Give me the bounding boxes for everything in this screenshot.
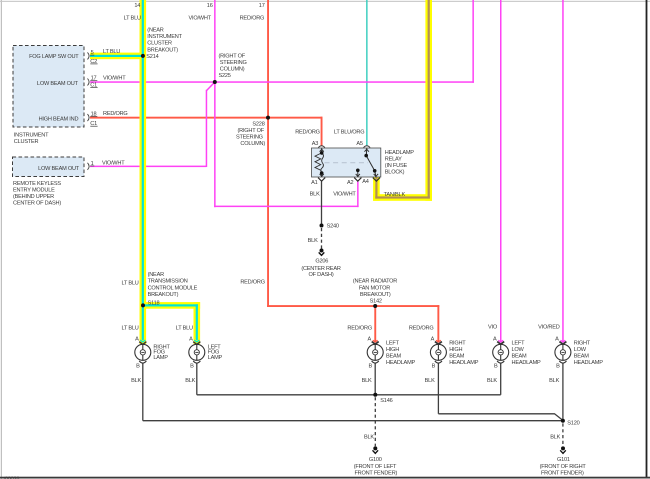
wire BLK right high beam B down [437,363,439,413]
svg-text:BREAKOUT): BREAKOUT) [147,47,178,53]
connector chevron below relay pin A2 [354,178,361,182]
svg-text:LT BLU: LT BLU [121,281,138,287]
splice S214 [141,54,145,58]
wire LT BLU/ORG teal vertical to relay pin A5 [366,0,368,145]
svg-text:S228: S228 [252,122,264,128]
svg-text:INSTRUMENT: INSTRUMENT [14,133,49,139]
wire BLK left low beam B down [500,363,502,394]
wire VIO/WHT right riser to top of page [472,0,474,83]
splice S225 [213,80,217,84]
svg-text:B: B [368,364,372,370]
svg-text:B: B [190,364,194,370]
wire RED/ORG vertical S142 to left high beam headlamp [374,305,376,342]
svg-text:BLK: BLK [549,378,559,384]
svg-text:A: A [189,336,193,342]
wire RED/ORG horizontal to S142 and right high beam drop [267,305,439,307]
wire BLK right high beam ground run [438,414,563,421]
svg-text:HIGH: HIGH [386,347,399,353]
wire BLK ground run left fog lamp to S146 to left low beam [197,394,501,396]
svg-text:S214: S214 [146,54,158,60]
wire BLK dashed S240 to ground G206 [321,228,323,249]
wire BLK relay A1 down to S240 [321,182,323,226]
svg-text:S240: S240 [327,224,339,230]
svg-text:LEFT: LEFT [512,341,526,347]
wire VIO/WHT horizontal S225 to right riser [214,81,474,83]
connector arc pin 17 C1 instrument cluster [88,79,90,86]
svg-text:RED/ORG: RED/ORG [347,325,372,331]
svg-text:BLK: BLK [364,435,374,441]
svg-text:LAMP: LAMP [153,355,168,361]
wire LT BLU horizontal from instrument cluster FOG LAMP SW OUT (yellow band) [90,53,146,60]
svg-text:VIO/WHT: VIO/WHT [103,75,126,81]
svg-text:BLK: BLK [131,378,141,384]
svg-text:RIGHT: RIGHT [449,341,466,347]
wire VIO/WHT vertical circuit 16 down to S225 and on to relay A2 elbow [214,0,216,207]
svg-text:S225: S225 [219,73,231,79]
page border left [1,0,2,479]
svg-text:STEERING: STEERING [220,60,247,66]
wire BLK left high beam B down to S146 [374,363,376,394]
svg-text:(IN FUSE: (IN FUSE [385,163,408,169]
svg-text:BLOCK): BLOCK) [385,169,405,175]
svg-text:A2: A2 [347,180,354,186]
svg-text:RED/ORG: RED/ORG [295,130,320,136]
svg-text:TAN/BLK: TAN/BLK [384,192,406,198]
svg-text:BEAM: BEAM [449,354,465,360]
svg-text:REMOTE KEYLESS: REMOTE KEYLESS [13,181,61,187]
wire BLK dashed S120 to ground G101 [562,423,564,446]
wire LT BLU cyan core vertical circuit 14 [142,0,144,343]
svg-text:HIGH BEAM IND: HIGH BEAM IND [39,117,79,123]
svg-text:(NEAR RADIATOR: (NEAR RADIATOR [353,279,397,285]
svg-text:ENTRY MODULE: ENTRY MODULE [13,188,55,194]
wire VIO/WHT diagonal from keyless riser to S225 [207,82,215,91]
relay coil between A3 and A1 [315,148,324,177]
page border top [0,1,650,2]
svg-text:B: B [494,364,498,370]
svg-text:HEADLAMP: HEADLAMP [385,150,415,156]
svg-text:COLUMN): COLUMN) [220,66,245,72]
svg-text:COLUMN): COLUMN) [240,141,265,147]
svg-text:VIO/WHT: VIO/WHT [102,160,125,166]
right fog lamp [135,342,151,364]
svg-text:STEERING: STEERING [236,135,263,141]
svg-text:S146: S146 [380,398,392,404]
svg-text:A1: A1 [311,180,318,186]
svg-text:(NEAR: (NEAR [147,27,163,33]
svg-text:A4: A4 [362,179,369,185]
svg-text:LT BLU: LT BLU [124,15,141,21]
svg-text:A: A [431,336,435,342]
svg-text:VIO/WHT: VIO/WHT [189,15,212,21]
svg-text:(FRONT OF RIGHT: (FRONT OF RIGHT [540,464,587,470]
relay switch A4 stub with down arrow [375,171,376,177]
svg-text:(CENTER REAR: (CENTER REAR [301,266,340,272]
svg-text:VIO/WHT: VIO/WHT [333,191,356,197]
relay switch blade A5 to A4 [366,156,375,171]
wire RED/ORG vertical drop to relay pin A3 [321,117,323,146]
svg-text:LEFT: LEFT [386,341,400,347]
svg-text:HEADLAMP: HEADLAMP [449,360,479,366]
svg-text:HIGH: HIGH [449,347,462,353]
left high beam headlamp [367,342,383,364]
connector chevron below relay pin A1 [318,178,325,182]
svg-text:FOG LAMP SW OUT: FOG LAMP SW OUT [29,54,79,60]
svg-text:LAMP: LAMP [208,355,223,361]
svg-text:TRANSMISSION: TRANSMISSION [148,279,188,285]
right low beam headlamp [555,342,571,364]
wire TAN/BLK tan core vertical to top [428,0,430,199]
ground symbol G206 [319,249,325,256]
svg-text:BEAM: BEAM [512,354,528,360]
svg-text:LOW BEAM OUT: LOW BEAM OUT [38,166,80,172]
svg-text:16: 16 [207,3,213,9]
svg-text:BLK: BLK [308,238,318,244]
relay switch dot at A2 contact [356,169,360,173]
splice S142 [373,304,377,308]
svg-text:B: B [136,364,140,370]
connector arc relay pin A5 [364,146,371,148]
wire RED/ORG vertical to right high beam headlamp [437,305,439,342]
wire VIO/WHT horizontal elbow to relay A2 [214,206,359,208]
svg-text:HEADLAMP: HEADLAMP [574,360,604,366]
relay switch pin A5 stub with up arrow [356,148,378,177]
wire LT BLU vertical circuit 14 (yellow band) [140,0,147,344]
wire TAN/BLK horizontal elbow (yellow band) [373,194,432,201]
wire TAN/BLK vertical to top of page (yellow band) [425,0,432,201]
relay box headlamp relay [312,148,381,177]
connector arc pin 5 C2 instrument cluster [88,52,90,59]
splice S118 [141,303,145,307]
svg-text:VIO: VIO [488,324,498,330]
wire LT BLU vertical to left fog lamp (yellow band) [194,302,201,344]
svg-text:LT BLU: LT BLU [103,49,120,55]
wire TAN/BLK tan core horizontal elbow [375,196,430,198]
relay dashed divider line [325,162,369,164]
svg-text:A3: A3 [312,141,319,147]
splice S228 [266,116,270,120]
svg-text:RED/ORG: RED/ORG [240,279,265,285]
svg-text:(BEHIND UPPER: (BEHIND UPPER [13,194,54,200]
relay switch dot at A5 common [364,154,368,158]
ground symbol G101 [560,446,566,453]
svg-text:(RIGHT OF: (RIGHT OF [237,128,264,134]
wire TAN/BLK tan core vertical from relay A4 [375,177,377,199]
svg-text:BREAKOUT): BREAKOUT) [148,292,179,298]
svg-text:BEAM: BEAM [574,354,590,360]
relay coil pin stubs and arrows [321,148,323,153]
svg-text:RED/ORG: RED/ORG [103,111,128,117]
wire LT BLU branch horizontal S118 to left fog lamp (yellow band) [140,302,201,309]
svg-text:17: 17 [259,3,265,9]
svg-text:S120: S120 [567,421,579,427]
svg-text:CLUSTER: CLUSTER [14,139,39,145]
svg-text:BLK: BLK [425,378,435,384]
svg-text:RED/ORG: RED/ORG [240,15,265,21]
svg-text:LT BLU/ORG: LT BLU/ORG [334,130,365,136]
svg-text:BREAKOUT): BREAKOUT) [360,292,391,298]
svg-text:LT BLU: LT BLU [176,325,193,331]
relay coil junction dot top [320,151,324,155]
wire VIO vertical to left low beam headlamp [500,0,502,342]
wire BLK dashed S146 to ground G100 [374,397,376,446]
svg-text:14: 14 [134,3,140,9]
relay switch A2 stub with down arrow [357,170,359,177]
wire LT BLU cyan core vertical to left fog lamp [196,304,198,343]
svg-text:RELAY: RELAY [385,156,402,162]
svg-text:G101: G101 [557,457,570,463]
svg-text:BLK: BLK [362,378,372,384]
wire BLK right low beam B down to S120 [562,363,564,420]
svg-text:A5: A5 [356,141,363,147]
svg-text:FRONT FENDER): FRONT FENDER) [354,470,397,476]
svg-text:OF DASH): OF DASH) [309,272,334,278]
svg-text:(RIGHT OF: (RIGHT OF [219,54,246,60]
svg-text:B: B [556,364,560,370]
svg-text:A: A [555,336,559,342]
left low beam headlamp [493,342,509,364]
svg-text:BLK: BLK [310,191,320,197]
remote keyless entry module box [13,157,85,177]
wire LT BLU cyan core horizontal from instrument cluster [90,55,144,57]
svg-text:BLK: BLK [185,378,195,384]
svg-text:BLK: BLK [487,378,497,384]
svg-text:FAN MOTOR: FAN MOTOR [359,285,390,291]
ground symbol G100 [373,446,379,453]
svg-text:LOW: LOW [574,347,587,353]
svg-text:RED/ORG: RED/ORG [409,325,434,331]
svg-text:A: A [493,336,497,342]
wire BLK long ground run to S120 [143,420,563,422]
svg-text:BEAM: BEAM [386,354,402,360]
connector arc pin 18 C1 instrument cluster [88,114,90,121]
instrument cluster box [13,46,84,128]
svg-text:HEADLAMP: HEADLAMP [386,360,416,366]
svg-text:A: A [367,336,371,342]
connector arc relay pin A3 [318,146,325,148]
page border bottom [0,477,650,479]
svg-text:VIO/RED: VIO/RED [538,324,560,330]
svg-text:G206: G206 [315,259,328,265]
splice S240 [320,224,324,228]
relay coil junction dot bottom [320,171,324,175]
right high beam headlamp [430,342,446,364]
wire VIO/WHT vertical up to relay pin A2 [357,182,359,208]
connector chevron below relay pin A4 [373,178,380,182]
svg-text:BLK: BLK [550,435,560,441]
wire BLK right fog lamp B down [142,363,144,420]
svg-text:RIGHT: RIGHT [574,341,591,347]
wire VIO/WHT keyless riser [206,90,208,167]
svg-text:CLUSTER: CLUSTER [147,41,172,47]
svg-text:A: A [135,336,139,342]
svg-text:(FRONT OF LEFT: (FRONT OF LEFT [354,464,397,470]
splice S120 [561,419,565,423]
page border right [646,0,648,478]
wire RED/ORG horizontal from instrument cluster HIGH BEAM IND through S228 to relay drop [90,117,322,119]
wire TAN/BLK from relay A4 vertical (yellow band) [373,177,380,201]
svg-text:HEADLAMP: HEADLAMP [512,360,542,366]
splice S146 [373,393,377,397]
svg-text:S142: S142 [370,299,382,305]
wire VIO/WHT horizontal from instrument cluster LOW BEAM OUT to S225 [90,81,216,83]
wire LT BLU cyan core branch horizontal at S118 [142,304,198,306]
svg-text:LT BLU: LT BLU [121,325,138,331]
svg-text:LOW: LOW [512,347,525,353]
svg-text:FRONT FENDER): FRONT FENDER) [541,470,584,476]
wire RED/ORG vertical circuit 17 [267,0,269,307]
wire BLK left fog lamp B down [196,363,198,394]
wire VIO/WHT horizontal from remote keyless entry module [90,166,206,168]
svg-text:INSTRUMENT: INSTRUMENT [147,34,182,40]
left fog lamp [189,342,205,364]
svg-text:S118: S118 [148,300,160,306]
svg-text:(NEAR: (NEAR [148,272,164,278]
svg-text:CENTER OF DASH): CENTER OF DASH) [13,201,61,207]
relay switch dot at A4 throw [373,169,377,173]
svg-text:G100: G100 [369,457,382,463]
svg-text:LOW BEAM OUT: LOW BEAM OUT [37,81,79,87]
svg-text:B: B [432,364,436,370]
wire VIO/RED vertical to right low beam headlamp [562,0,564,342]
svg-text:CONTROL MODULE: CONTROL MODULE [148,285,198,291]
connector arc pin 1 remote keyless entry module [88,163,90,170]
